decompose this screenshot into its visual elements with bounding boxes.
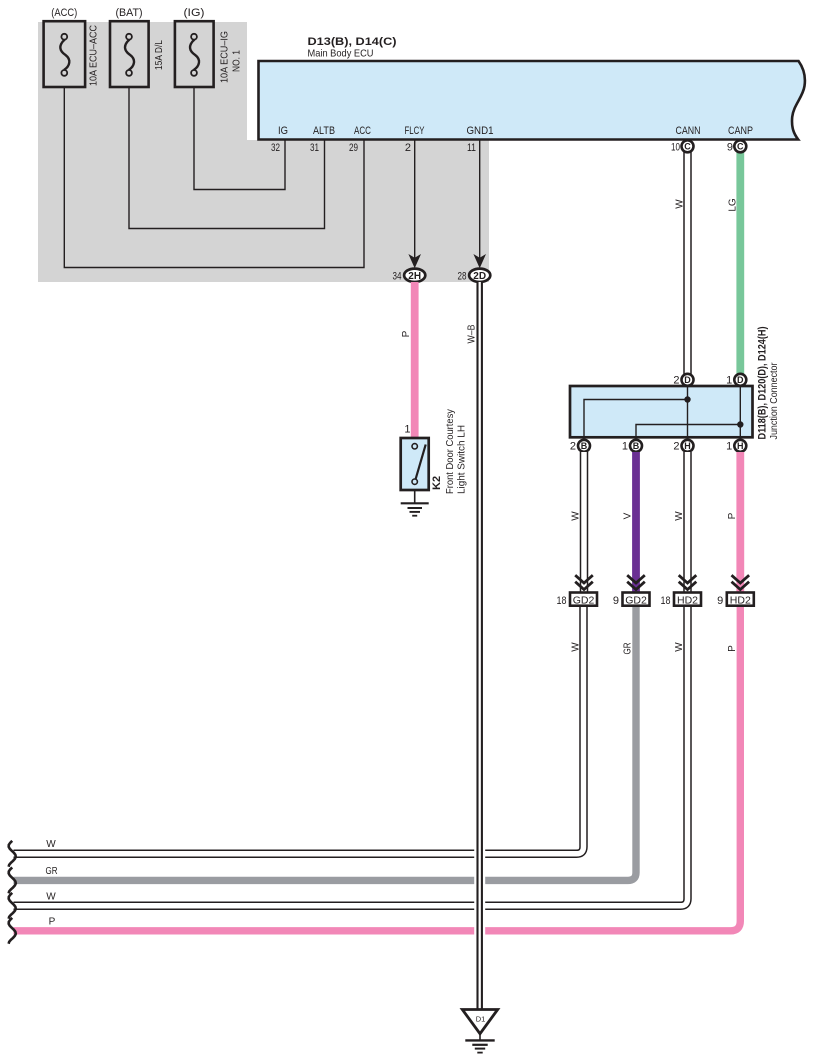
junction node dot bbox=[737, 421, 743, 427]
svg-text:C: C bbox=[684, 142, 691, 152]
wire W from CANN (double line) bbox=[683, 150, 692, 374]
chevron arrows into HD2 (18) bbox=[679, 575, 697, 589]
svg-text:18: 18 bbox=[557, 595, 567, 607]
svg-text:15A D/L: 15A D/L bbox=[153, 40, 165, 70]
wire fuse BAT to ECU pin ALTB bbox=[129, 75, 325, 229]
svg-text:D: D bbox=[737, 375, 744, 385]
svg-text:11: 11 bbox=[467, 142, 476, 154]
svg-text:29: 29 bbox=[349, 142, 358, 154]
connector oval 2H pin 34 bbox=[404, 269, 425, 282]
svg-text:W: W bbox=[674, 642, 685, 652]
fuse (BAT) 15A D/L bbox=[110, 7, 165, 87]
svg-text:W: W bbox=[46, 839, 56, 850]
wire W from 2B to GD2 bbox=[580, 452, 589, 592]
svg-text:NO. 1: NO. 1 bbox=[231, 50, 243, 72]
svg-text:C: C bbox=[737, 142, 744, 152]
svg-text:W–B: W–B bbox=[467, 324, 478, 343]
ground D1 hatch bbox=[465, 1034, 494, 1053]
fuse (IG) 10A ECU-IG NO. 1 bbox=[175, 7, 243, 87]
svg-text:ACC: ACC bbox=[354, 125, 371, 137]
junction internal wire 2D-2H bbox=[687, 387, 689, 437]
svg-text:9: 9 bbox=[727, 142, 733, 154]
svg-text:10A ECU–ACC: 10A ECU–ACC bbox=[88, 25, 100, 86]
wire W from 2H to HD2 bbox=[683, 452, 692, 592]
svg-text:P: P bbox=[401, 330, 412, 337]
svg-text:W: W bbox=[571, 642, 582, 652]
ground D1 triangle bbox=[462, 1010, 497, 1034]
svg-text:10: 10 bbox=[671, 142, 680, 154]
chevron arrows into GD2 (18) bbox=[575, 575, 593, 589]
svg-text:ALTB: ALTB bbox=[313, 125, 335, 137]
svg-text:D118(B), D120(D), D124(H): D118(B), D120(D), D124(H) bbox=[757, 326, 769, 439]
wire W below HD2 18 down and left to edge bbox=[14, 605, 688, 906]
connector box HD2 18 bbox=[674, 593, 701, 606]
svg-text:Front Door Courtesy: Front Door Courtesy bbox=[445, 409, 456, 494]
svg-text:D13(B), D14(C): D13(B), D14(C) bbox=[308, 36, 397, 48]
wire fuse IG to ECU pin IG bbox=[194, 75, 285, 190]
continuation squiggle wire 4 bbox=[9, 918, 16, 944]
continuation squiggle wire 3 bbox=[9, 893, 16, 919]
svg-text:9: 9 bbox=[717, 595, 723, 607]
svg-text:HD2: HD2 bbox=[677, 595, 698, 607]
junction pin circle H 2 bbox=[682, 440, 694, 452]
svg-text:GD2: GD2 bbox=[573, 595, 595, 607]
svg-text:W: W bbox=[46, 892, 56, 903]
fuse (ACC) 10A ECU-ACC bbox=[44, 7, 100, 87]
wire LG from CANP bbox=[736, 150, 744, 374]
svg-text:CANP: CANP bbox=[728, 125, 753, 137]
chevron arrows into HD2 (9) bbox=[732, 575, 750, 589]
svg-text:2: 2 bbox=[570, 441, 576, 453]
svg-text:1: 1 bbox=[404, 424, 410, 436]
svg-text:GND1: GND1 bbox=[467, 125, 494, 137]
svg-text:(BAT): (BAT) bbox=[116, 7, 143, 19]
junction pin circle B 1 bbox=[630, 440, 642, 452]
svg-text:1: 1 bbox=[622, 441, 628, 453]
connector box GD2 9 bbox=[623, 593, 650, 606]
svg-text:V: V bbox=[623, 512, 634, 519]
svg-text:W: W bbox=[571, 511, 582, 521]
main body ECU U-D13/D14 box bbox=[259, 61, 805, 140]
svg-text:2: 2 bbox=[673, 375, 679, 387]
connector box GD2 18 bbox=[570, 593, 597, 606]
svg-text:2D: 2D bbox=[473, 271, 486, 282]
svg-text:GR: GR bbox=[623, 643, 634, 655]
junction pin circle H 1 bbox=[734, 440, 746, 452]
svg-text:2: 2 bbox=[673, 441, 679, 453]
svg-text:1: 1 bbox=[726, 375, 732, 387]
ground below K2 bbox=[401, 490, 429, 516]
svg-text:(ACC): (ACC) bbox=[51, 7, 77, 19]
svg-text:9: 9 bbox=[613, 595, 619, 607]
svg-text:K2: K2 bbox=[431, 476, 443, 490]
junction pin circle D 1 bbox=[734, 374, 746, 386]
svg-text:P: P bbox=[727, 645, 738, 652]
junction pin circle B 2 bbox=[578, 440, 590, 452]
wire P from 2H to switch K2 bbox=[411, 282, 419, 438]
svg-text:D: D bbox=[684, 375, 691, 385]
svg-text:Junction Connector: Junction Connector bbox=[768, 362, 780, 439]
svg-text:P: P bbox=[49, 917, 56, 928]
connector pin circle C 10 (CANN) bbox=[682, 140, 694, 152]
wire GR below GD2 9 down and left to edge bbox=[14, 605, 637, 880]
continuation squiggle wire 2 bbox=[9, 867, 16, 893]
junction internal wire to 2B bbox=[584, 400, 688, 437]
switch K2 Front Door Courtesy Light Switch LH bbox=[401, 409, 468, 494]
svg-text:(IG): (IG) bbox=[184, 7, 205, 19]
svg-text:H: H bbox=[737, 441, 744, 451]
chevron arrows into GD2 (9) bbox=[627, 575, 645, 589]
svg-text:W: W bbox=[674, 511, 685, 521]
svg-text:Light Switch LH: Light Switch LH bbox=[457, 425, 468, 494]
wire V from 1B to GD2 bbox=[632, 452, 640, 592]
svg-text:H: H bbox=[684, 441, 691, 451]
connector pin circle C 9 (CANP) bbox=[734, 140, 746, 152]
svg-text:32: 32 bbox=[271, 142, 280, 154]
svg-text:2: 2 bbox=[405, 142, 411, 154]
wire W-B from 2D to ground D1 (white halo over crossings) bbox=[474, 284, 485, 1010]
wire GND1 pin 11 to connector 2D with arrow bbox=[479, 140, 481, 260]
svg-text:Main Body ECU: Main Body ECU bbox=[308, 48, 374, 60]
junction node dot bbox=[684, 396, 690, 402]
continuation squiggle wire 1 bbox=[9, 841, 16, 867]
svg-text:IG: IG bbox=[278, 125, 288, 137]
svg-text:P: P bbox=[727, 512, 738, 519]
wire W below GD2 18 down and left to edge bbox=[14, 605, 584, 854]
junction internal wire to 1B bbox=[636, 425, 740, 437]
wire P below HD2 9 down and left to edge bbox=[14, 605, 741, 931]
svg-text:1: 1 bbox=[726, 441, 732, 453]
svg-text:HD2: HD2 bbox=[730, 595, 751, 607]
wiring harness gray background bbox=[38, 22, 489, 282]
svg-text:31: 31 bbox=[310, 142, 319, 154]
svg-text:CANN: CANN bbox=[676, 125, 701, 137]
connector oval 2D pin 28 bbox=[469, 269, 490, 282]
svg-text:B: B bbox=[581, 441, 588, 451]
svg-text:2H: 2H bbox=[408, 271, 421, 282]
wire P from 1H to HD2 bbox=[736, 452, 744, 592]
connector box HD2 9 bbox=[727, 593, 754, 606]
svg-text:W: W bbox=[675, 199, 686, 209]
svg-text:28: 28 bbox=[458, 270, 467, 282]
svg-text:10A ECU–IG: 10A ECU–IG bbox=[219, 31, 231, 83]
svg-text:B: B bbox=[633, 441, 640, 451]
svg-text:18: 18 bbox=[661, 595, 671, 607]
svg-text:34: 34 bbox=[393, 270, 402, 282]
svg-text:LG: LG bbox=[728, 198, 739, 212]
junction internal wire 1D-1H bbox=[739, 387, 741, 437]
svg-text:FLCY: FLCY bbox=[405, 125, 425, 137]
wire fuse ACC to ECU pin ACC bbox=[64, 75, 364, 268]
svg-text:D1: D1 bbox=[476, 1015, 486, 1024]
wire FLCY pin 2 to connector 2H with arrow bbox=[414, 140, 416, 260]
junction connector D118(B), D120(D), D124(H) bbox=[570, 386, 753, 437]
svg-text:GR: GR bbox=[46, 866, 58, 877]
svg-text:GD2: GD2 bbox=[625, 595, 647, 607]
junction pin circle D 2 bbox=[682, 374, 694, 386]
